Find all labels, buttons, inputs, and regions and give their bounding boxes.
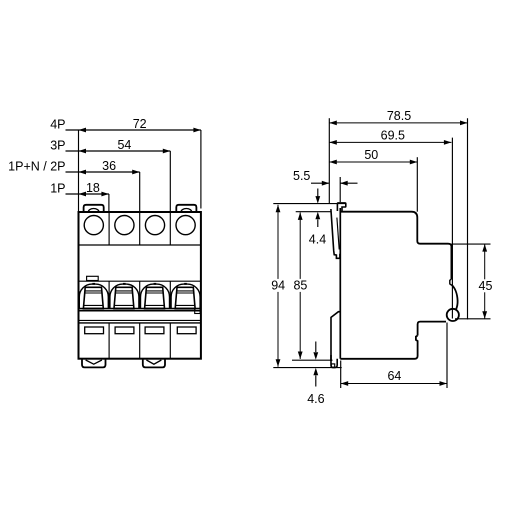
- front band line 3: [79, 319, 201, 321]
- side dim 78.5 line: [329, 122, 467, 124]
- side dim 94 line: [277, 205, 279, 367]
- front toggle handle pole 3: [145, 287, 165, 308]
- side dim 94 label: [270, 279, 286, 292]
- front toggle arch peak mark pole 2: [123, 283, 126, 285]
- svg-text:69.5: 69.5: [381, 129, 405, 143]
- front dim extension line 18mm: [108, 194, 110, 211]
- svg-text:94: 94: [271, 278, 285, 292]
- side dim 45 label: [478, 279, 494, 292]
- front dim extension line 36mm: [139, 172, 141, 211]
- side tick 45 bottom: [455, 318, 491, 320]
- front terminal screw circle pole 3: [145, 216, 164, 235]
- svg-text:78.5: 78.5: [387, 109, 411, 123]
- front bottom section separator 2: [139, 323, 141, 359]
- front bottom section separator 3: [169, 323, 171, 359]
- side step bottom face: [418, 322, 446, 336]
- front toggle arch pole 4: [171, 284, 200, 308]
- front bottom terminal window pole 1: [85, 327, 104, 334]
- side lower clip: [331, 312, 340, 361]
- front terminal screw circle pole 2: [115, 216, 134, 235]
- side dim 45 line: [484, 244, 486, 319]
- front dim extension line 72mm: [200, 130, 202, 209]
- front bottom terminal window pole 3: [145, 327, 164, 334]
- front toggle base line: [79, 307, 201, 309]
- svg-text:45: 45: [479, 279, 493, 293]
- front terminal band separator 3: [169, 212, 171, 245]
- front terminal band separator 1: [108, 212, 110, 245]
- front bottom tab chevron pole 1: [86, 360, 102, 364]
- side terminal screw loop: [447, 309, 459, 321]
- side top face extension line B: [296, 211, 331, 213]
- svg-text:54: 54: [117, 138, 131, 152]
- side ext line 69.5 right: [451, 138, 453, 319]
- svg-text:50: 50: [364, 148, 378, 162]
- front toggle arch pole 3: [140, 284, 169, 308]
- front dim 18mm line (1P): [66, 193, 109, 195]
- front toggle row separator 2: [139, 281, 141, 308]
- front bottom tab pole 1: [82, 359, 106, 368]
- front dim 54mm line (3P): [66, 150, 171, 152]
- front toggle arch peak mark pole 4: [184, 283, 187, 285]
- front band line 2: [79, 310, 201, 312]
- svg-text:4.4: 4.4: [309, 233, 326, 247]
- svg-text:3P: 3P: [50, 139, 65, 153]
- side ext line left x=329.3: [328, 118, 330, 204]
- svg-text:85: 85: [293, 278, 307, 292]
- side dim 5.5 left arrow: [311, 182, 329, 184]
- front terminal screw circle pole 4: [176, 216, 195, 235]
- svg-text:1P: 1P: [50, 182, 65, 196]
- side lower clip foot notch: [331, 364, 334, 367]
- side dim 4.6 upper arrow: [315, 342, 317, 353]
- front bottom tab pole 3: [143, 359, 165, 368]
- side tick 45 top: [451, 243, 490, 245]
- side upper clip outer edge: [331, 209, 340, 258]
- front toggle arch peak mark pole 3: [154, 283, 157, 285]
- side dim 4.4 upper arrow: [317, 189, 319, 197]
- side terminal bulge arc: [451, 285, 457, 310]
- front terminal band separator 2: [139, 212, 141, 245]
- side body top face: [340, 212, 451, 279]
- svg-text:4P: 4P: [50, 118, 65, 132]
- front bottom terminal window pole 4: [177, 327, 196, 334]
- front toggle row separator 3: [169, 281, 171, 308]
- side ext line 64 right: [446, 323, 448, 389]
- side ext line 50 right: [416, 157, 418, 212]
- front toggle arch peak mark pole 1: [92, 283, 95, 285]
- side dim 85 line: [299, 212, 301, 359]
- front dim 72mm line (4P): [66, 129, 201, 131]
- front top tab inner bump pole 1: [88, 209, 99, 213]
- side ext line 78.5 right: [467, 118, 469, 319]
- front band line 4: [79, 322, 201, 324]
- svg-text:72: 72: [133, 117, 147, 131]
- svg-text:4.6: 4.6: [307, 392, 324, 406]
- side dim 69.5 line: [329, 141, 451, 143]
- side front face notch: [450, 279, 452, 285]
- front toggle row top line: [79, 280, 201, 282]
- side dim 4.4 lower arrow: [317, 220, 319, 228]
- front right edge notch: [195, 309, 200, 314]
- side dim 4.6 lower arrow: [315, 375, 317, 386]
- front toggle handle pole 2: [114, 287, 134, 308]
- svg-text:5.5: 5.5: [293, 169, 310, 183]
- front toggle arch pole 1: [79, 284, 108, 308]
- front toggle arch pole 2: [110, 284, 139, 308]
- front toggle row separator 1: [108, 281, 110, 308]
- front terminal screw circle pole 1: [84, 216, 103, 235]
- side dim 85 label: [292, 279, 308, 292]
- side tick 85 bottom: [292, 359, 333, 361]
- front toggle handle pole 4: [175, 287, 195, 308]
- front top mounting tab pole 1: [84, 205, 104, 212]
- svg-text:1P+N / 2P: 1P+N / 2P: [8, 160, 65, 174]
- side DIN hook: [337, 203, 345, 211]
- side body left face: [339, 208, 341, 359]
- front bottom section separator 1: [108, 323, 110, 359]
- front terminal band bottom line: [79, 244, 201, 246]
- side dim 50 line: [329, 161, 417, 163]
- svg-text:36: 36: [102, 159, 116, 173]
- front toggle handle pole 1: [83, 287, 103, 308]
- side tick 94 bottom / foot bottom: [273, 367, 341, 369]
- front dim extension line x=78.5 (body left edge extended): [78, 130, 80, 212]
- front dim extension line 54mm: [169, 151, 171, 211]
- svg-text:18: 18: [86, 181, 100, 195]
- side ext line 5.5 right x=340.2: [339, 177, 341, 202]
- side ext line 64 left: [340, 361, 342, 389]
- front bottom terminal window pole 2: [115, 327, 134, 334]
- front dim 36mm line (1P+N / 2P): [66, 171, 140, 173]
- side lower clip foot: [331, 355, 337, 368]
- front view body outline: [79, 212, 201, 359]
- front label window: [87, 276, 99, 280]
- front top tab inner bump pole 4: [181, 209, 192, 213]
- side dim 5.5 right arrow: [340, 182, 357, 184]
- side reference line A (94 top tick): [273, 203, 346, 205]
- side lower front face with jog: [340, 336, 417, 359]
- svg-text:64: 64: [387, 369, 401, 383]
- side upper clip inner line: [337, 218, 339, 250]
- front bottom tab chevron pole 3: [146, 360, 161, 364]
- front top mounting tab pole 4: [176, 205, 196, 212]
- side dim 64 line: [341, 383, 447, 385]
